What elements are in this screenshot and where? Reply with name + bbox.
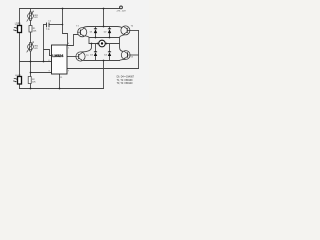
diode D3 bbox=[90, 52, 97, 57]
note parts list bbox=[117, 76, 135, 85]
svg-text:LDR1: LDR1 bbox=[15, 24, 22, 26]
wire bottom rail bbox=[20, 88, 104, 90]
LDR LDR2 bbox=[13, 75, 21, 84]
svg-text:2: 2 bbox=[49, 53, 50, 55]
wire right base bus bbox=[138, 31, 140, 69]
svg-text:D2: D2 bbox=[104, 32, 108, 34]
svg-text:7: 7 bbox=[68, 71, 69, 73]
wire D3 leads bbox=[95, 44, 97, 61]
wire left rail bbox=[19, 9, 21, 89]
transistor T3 bbox=[76, 52, 89, 61]
diode D1 bbox=[90, 29, 98, 34]
wire T2 base bbox=[130, 30, 139, 32]
svg-text:T4: T4 bbox=[130, 56, 133, 58]
wire T4 base bbox=[130, 54, 138, 56]
terminal +9-12V bbox=[120, 6, 123, 9]
wire IC output to right bus bbox=[67, 68, 139, 70]
svg-text:D3: D3 bbox=[90, 54, 94, 56]
node D2 anode bbox=[109, 37, 111, 39]
wire D1 leads bbox=[95, 27, 97, 38]
svg-text:0.1µ: 0.1µ bbox=[46, 29, 51, 31]
node bridge bottom / return tap bbox=[103, 60, 105, 62]
wire lower tap to IC bbox=[31, 72, 52, 74]
wire T1 emitter bbox=[84, 36, 89, 44]
transistor T4 bbox=[121, 51, 133, 60]
preset VR2 bbox=[27, 41, 39, 52]
wire T3 base path bbox=[67, 56, 76, 58]
svg-text:6: 6 bbox=[49, 60, 50, 62]
wire bridge rail2 bbox=[89, 37, 120, 39]
wire D2 leads bbox=[109, 27, 111, 38]
svg-text:+9V - 12V: +9V - 12V bbox=[116, 10, 126, 12]
wire D4 leads bbox=[109, 44, 111, 61]
svg-text:11: 11 bbox=[60, 77, 62, 79]
op-amp IC LM324 bbox=[49, 43, 70, 79]
LDR LDR1 bbox=[13, 24, 21, 33]
node motor left bbox=[97, 43, 99, 45]
transistor T2 bbox=[121, 25, 134, 35]
svg-text:T1, T2 = BD139: T1, T2 = BD139 bbox=[117, 80, 134, 82]
wire IC ground pin bbox=[59, 74, 61, 89]
wire divider branch bbox=[30, 9, 32, 89]
svg-text:9: 9 bbox=[49, 71, 50, 73]
svg-text:D1: D1 bbox=[90, 32, 94, 34]
wire cap branch vertical bbox=[43, 25, 45, 62]
wire jog to IC pin bbox=[44, 50, 52, 56]
svg-text:LDR2: LDR2 bbox=[15, 75, 21, 77]
wire T4 collector bbox=[120, 44, 125, 52]
wire top positive rail bbox=[20, 8, 120, 10]
junction dots bbox=[30, 8, 111, 90]
svg-text:D1- D4 = 1N4007: D1- D4 = 1N4007 bbox=[117, 76, 135, 78]
svg-text:47K: 47K bbox=[34, 17, 38, 19]
svg-text:T1: T1 bbox=[76, 25, 79, 27]
diode D2 bbox=[104, 29, 111, 34]
node mid rail / divider branch bbox=[30, 61, 32, 63]
wire T3 emitter bbox=[81, 59, 86, 62]
node bridge top rail tap bbox=[103, 26, 105, 28]
wire mid rail bbox=[20, 61, 52, 63]
svg-text:47K: 47K bbox=[34, 48, 38, 50]
svg-text:4: 4 bbox=[68, 43, 69, 45]
node mid rail / C1 branch bbox=[43, 61, 45, 63]
wire bridge bottom rail bbox=[84, 60, 119, 62]
node lower tap bbox=[30, 72, 32, 74]
wire T2 emitter bbox=[120, 34, 128, 44]
capacitor C1 bbox=[46, 21, 52, 31]
wire motor center tap bbox=[103, 61, 105, 89]
node V+ / IC supply bbox=[62, 8, 64, 10]
resistor R1 bbox=[29, 26, 37, 33]
svg-text:10K: 10K bbox=[33, 30, 37, 32]
svg-text:1: 1 bbox=[68, 47, 69, 49]
svg-text:D4: D4 bbox=[104, 54, 108, 56]
wire V+ drop to bridge bbox=[103, 9, 105, 27]
wire T1 base path bbox=[67, 35, 78, 46]
svg-text:T3: T3 bbox=[86, 55, 89, 57]
wire motor rail bbox=[89, 43, 120, 45]
node T1 emitter / T3 collector bbox=[91, 43, 93, 45]
preset VR1 bbox=[27, 11, 39, 22]
motor M1 bbox=[99, 40, 106, 47]
node motor right bbox=[106, 43, 108, 45]
svg-text:10K: 10K bbox=[32, 81, 36, 83]
node ground rail / divider bbox=[30, 88, 32, 90]
svg-text:C1: C1 bbox=[48, 21, 51, 23]
wire capacitor right lead bbox=[49, 24, 62, 26]
node D1 anode bbox=[95, 37, 97, 39]
wire V+ drop to IC bbox=[63, 9, 68, 46]
wire T4 emitter bbox=[120, 59, 125, 60]
svg-text:T3, T4 = BD140: T3, T4 = BD140 bbox=[117, 83, 134, 85]
transistor T1 bbox=[76, 25, 86, 37]
svg-text:LM324: LM324 bbox=[52, 54, 64, 58]
wire T3 collector bbox=[82, 44, 92, 52]
resistor R2 bbox=[28, 77, 36, 84]
node V+ / bridge feed bbox=[103, 8, 105, 10]
diode D4 bbox=[104, 52, 111, 57]
svg-text:T2: T2 bbox=[131, 25, 134, 27]
node C1 / supply drop bbox=[62, 24, 64, 26]
node ground rail / IC pin 11 bbox=[59, 88, 61, 90]
wire capacitor left lead bbox=[44, 24, 47, 26]
wire bridge top rail bbox=[83, 27, 123, 29]
